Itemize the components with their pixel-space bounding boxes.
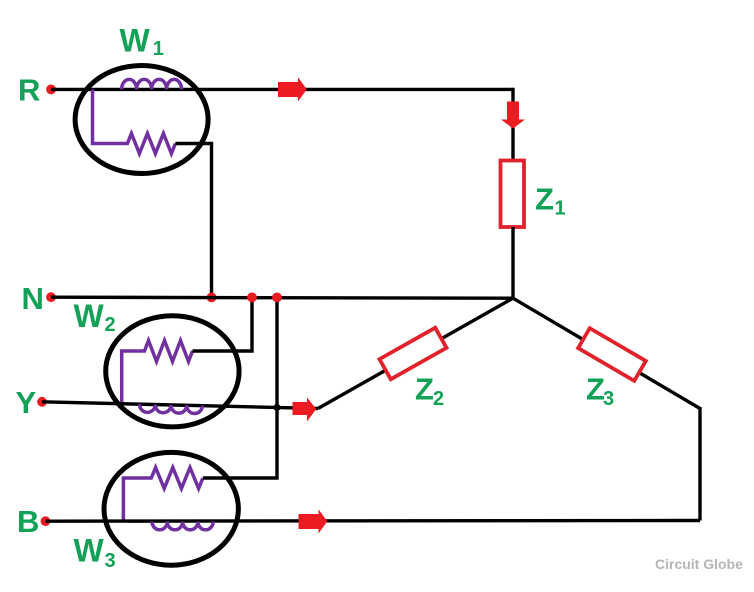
wire R drop to Z1 bbox=[511, 88, 514, 161]
wire R phase line bbox=[51, 88, 513, 91]
label W3 bbox=[74, 533, 116, 573]
wire Z3 corner drop bbox=[698, 407, 701, 521]
wattmeter W2 bbox=[106, 316, 239, 427]
svg-text:1: 1 bbox=[153, 38, 164, 60]
wire B phase line bbox=[46, 519, 701, 523]
junction dot W1-N bbox=[207, 293, 217, 303]
terminal dot Y bbox=[37, 397, 47, 407]
junction dot Y-line crossing bbox=[273, 404, 280, 411]
impedance Z1 bbox=[501, 161, 525, 228]
label Z3 bbox=[586, 372, 614, 411]
svg-text:B: B bbox=[17, 504, 39, 539]
wire Y phase line bbox=[42, 402, 318, 409]
svg-text:N: N bbox=[22, 281, 44, 316]
impedance Z3 bbox=[578, 328, 646, 381]
label Z2 bbox=[415, 372, 444, 411]
W1 current coil bbox=[122, 79, 182, 89]
arrow current into Z1 (down) bbox=[501, 102, 525, 129]
wire W2 pressure to N bbox=[193, 297, 253, 351]
svg-text:2: 2 bbox=[105, 314, 116, 336]
wire W1 pressure to N bbox=[175, 144, 211, 298]
wire Z1 to star point bbox=[511, 227, 514, 298]
arrow current IR bbox=[278, 77, 307, 101]
W2 current coil bbox=[140, 404, 203, 413]
wattmeter W1 bbox=[75, 66, 208, 174]
label W1 bbox=[120, 23, 164, 61]
svg-text:Circuit Globe: Circuit Globe bbox=[655, 556, 743, 572]
wire N neutral line bbox=[51, 297, 513, 298]
wire star to Z2 (Y diagonal) bbox=[318, 298, 513, 408]
svg-text:W: W bbox=[74, 533, 105, 569]
svg-text:R: R bbox=[18, 73, 40, 108]
svg-text:3: 3 bbox=[603, 388, 614, 410]
W1 pressure coil (resistor) bbox=[93, 89, 176, 153]
wire star to Z3 (B diagonal) bbox=[513, 298, 700, 408]
wire W3 pressure to N bbox=[203, 297, 277, 478]
W3 pressure coil (resistor) bbox=[123, 468, 203, 522]
arrow current IB bbox=[299, 509, 328, 533]
arrow current IY bbox=[293, 398, 317, 422]
label W2 bbox=[74, 298, 116, 336]
junction dot W2-N bbox=[247, 293, 257, 303]
terminal dot N bbox=[46, 292, 56, 302]
svg-text:2: 2 bbox=[433, 388, 444, 410]
wattmeter W3 bbox=[104, 452, 238, 565]
label Z1 bbox=[535, 182, 566, 220]
svg-text:Y: Y bbox=[16, 385, 37, 420]
W2 pressure coil (resistor) bbox=[122, 341, 193, 404]
svg-text:Z: Z bbox=[535, 182, 554, 217]
terminal dot B bbox=[41, 516, 51, 526]
svg-text:Z: Z bbox=[415, 372, 434, 407]
W3 current coil bbox=[152, 522, 213, 530]
terminal dot R bbox=[46, 85, 56, 95]
svg-text:1: 1 bbox=[555, 198, 566, 220]
svg-text:3: 3 bbox=[105, 550, 116, 572]
junction dot W3-N bbox=[272, 293, 282, 303]
svg-text:W: W bbox=[120, 23, 151, 59]
impedance Z2 bbox=[379, 328, 446, 379]
svg-text:W: W bbox=[74, 298, 105, 334]
